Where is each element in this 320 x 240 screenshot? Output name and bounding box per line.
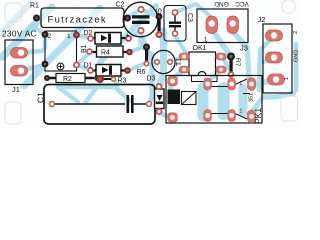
pad R7 bottom (228, 71, 235, 78)
svg-text:230V AC: 230V AC (2, 29, 37, 39)
pad OK1 bottom-left (179, 66, 190, 73)
wire J1 pad1 to B1 (19, 36, 45, 53)
pad R7 top (227, 53, 235, 61)
pad B1 top-left (42, 31, 49, 38)
pad C3 top (172, 9, 179, 16)
pad R5 bottom (155, 31, 162, 38)
pad C1 right (146, 101, 152, 107)
capacitor C2 electrolytic (123, 2, 158, 39)
via near R1 (29, 23, 38, 32)
svg-text:+: + (126, 33, 130, 40)
svg-text:GND: GND (294, 50, 300, 62)
relay PK1 lever top (211, 79, 247, 87)
wire bottom right to relay (252, 93, 294, 112)
wire B1 to R4 (77, 52, 90, 65)
pad R4 left (86, 48, 93, 55)
svg-text:C1: C1 (36, 92, 46, 103)
relay PK1 coil black box (168, 90, 181, 105)
wire J3 pad1 to R7 top (213, 31, 230, 55)
wire OK1 left-bottom to relay coil (170, 70, 184, 92)
transistor T1 (152, 50, 175, 73)
pad OK1 bottom-right (216, 66, 227, 73)
wire relay right interior vertical (239, 88, 248, 113)
pad B1 bottom-left (42, 61, 49, 68)
pad C2 top (137, 6, 144, 13)
svg-text:1: 1 (284, 77, 290, 80)
resistor R7 vertical (230, 58, 233, 72)
connector J1 outline (5, 40, 33, 85)
wire C1 interior diagonal 2 (85, 87, 97, 103)
pad J3 1 (206, 16, 218, 34)
pad J2 2 middle (266, 52, 283, 63)
pad C1 left (49, 101, 55, 107)
pad R4 right (126, 49, 133, 56)
diode D3 vertical (155, 89, 165, 109)
mounting hole bottom-left (5, 102, 21, 124)
pad PK1 right-bottom (248, 110, 256, 123)
connector J1 pad 1 (11, 48, 28, 59)
svg-text:GND: GND (214, 0, 229, 7)
wire top-left faint upper band (0, 4, 30, 34)
wire J2 pad2 stub (263, 58, 274, 62)
wire B1 to D1 (77, 65, 91, 71)
svg-text:OK1: OK1 (193, 45, 207, 52)
pad D1 right (124, 67, 131, 74)
relay PK1 mark line right (243, 93, 250, 95)
wire R5 bottom to vertical band (159, 35, 164, 41)
wire relay interior vertical (198, 88, 209, 116)
pad PK1 mid-top-1 (204, 78, 212, 90)
wire R3 stub (114, 79, 117, 86)
svg-text:C2: C2 (116, 2, 125, 9)
svg-text:Futrzaczek: Futrzaczek (48, 14, 107, 25)
pad D3 bottom (156, 108, 163, 115)
pad OK1 top-left (179, 53, 190, 60)
svg-text:1: 1 (240, 109, 243, 115)
svg-text:1: 1 (67, 33, 71, 40)
pad R6 top (143, 44, 150, 51)
wire right edge vertical (294, 44, 299, 90)
svg-text:R2: R2 (63, 76, 72, 83)
mounting hole top-right (282, 0, 296, 13)
wire C2 top to R5 top (142, 10, 158, 17)
resistor R3 (96, 78, 114, 80)
svg-text:R1: R1 (30, 3, 39, 10)
wire C1 interior diagonal 3 (115, 87, 130, 101)
connector J1 pad 2 (11, 66, 28, 77)
svg-text:R7: R7 (234, 58, 241, 67)
svg-text:R6: R6 (137, 69, 146, 76)
capacitor C1 outline (44, 85, 155, 125)
pad PK1 right-top (248, 78, 256, 91)
bridge rectifier B1 outline (45, 31, 77, 71)
wire OK1 right-bottom to relay pad (207, 70, 222, 82)
resistor R2 (47, 74, 96, 84)
connector J2 outline (263, 24, 292, 93)
wire R4 to R6 (129, 46, 146, 52)
pad J3 2 (227, 16, 239, 34)
resistor R1 outline with value Futrzaczek (41, 8, 124, 28)
wire via to B1 pad (34, 27, 44, 34)
pad C2 bottom (137, 27, 144, 34)
svg-text:R3: R3 (118, 78, 127, 85)
connector J3 outline (197, 9, 248, 44)
wire diagonal through C2 (100, 6, 156, 62)
resistor R6 vertical (145, 48, 148, 62)
pad T1 left (154, 59, 160, 65)
pad T1 right (167, 59, 173, 65)
pad R5 top (156, 13, 163, 20)
diode D2 (90, 33, 128, 45)
svg-text:VCC: VCC (235, 0, 249, 7)
pad R1 right (124, 15, 131, 22)
pad D2 left (87, 35, 94, 42)
resistor R5 vertical (158, 18, 161, 33)
mounting hole bottom-right (281, 96, 298, 121)
pad R1 left (33, 15, 40, 22)
pad B1 top-right (73, 32, 80, 39)
pad D2 right (125, 35, 132, 42)
svg-text:J2: J2 (258, 15, 266, 24)
pad PK1 mid-top-2 (228, 78, 236, 90)
svg-text:J1: J1 (12, 85, 20, 94)
pad PK1 left-top (168, 76, 178, 86)
resistor R4 (90, 46, 129, 57)
pad D1 left (87, 67, 94, 74)
wire J3 pad2 to relay right-top pad (233, 32, 249, 78)
svg-text:1: 1 (240, 81, 243, 87)
relay PK1 lever bottom (211, 113, 247, 119)
wire B1 to D2 (77, 35, 91, 39)
relay PK1 outline (166, 76, 262, 124)
wire OK1 right-top to R7 bottom (222, 57, 230, 70)
pad B1 bottom-right (73, 62, 80, 69)
wire C3 top to J3 pad1 (176, 4, 211, 22)
capacitor C3 outline (164, 6, 186, 42)
optocoupler OK1 outline (189, 52, 216, 76)
pad PK1 mid-bottom-2 (228, 110, 236, 122)
pad R3 body end (96, 75, 104, 83)
wire D1 to R6 (128, 63, 146, 71)
wire C2 bottom to R6 top (141, 33, 146, 44)
pad OK1 top-right (216, 53, 227, 60)
wire D2 to C2 (129, 31, 140, 39)
wire J2 pad1 down left side (259, 38, 272, 90)
wire relay interior diagonal (218, 88, 230, 114)
board background (0, 0, 300, 128)
wire C1 interior diagonal 1 (58, 87, 78, 102)
pad C3 bottom (172, 30, 179, 37)
pad D3 top (156, 83, 163, 90)
wire C2 bottom to C1 right pad (141, 32, 152, 104)
wire J1 pad2 to B1 (19, 65, 45, 71)
svg-text:J3: J3 (240, 44, 248, 53)
wire J2 pad3 to relay right-top pad (254, 81, 271, 84)
diode D1 (90, 65, 127, 77)
pad J2 3 bottom (268, 74, 285, 85)
pad R3 right (111, 76, 117, 82)
wire top-left diagonal bus A (2, 7, 52, 57)
wire C3 bottom to OK1 (175, 36, 185, 57)
pad R2 left (44, 75, 50, 81)
relay PK1 coil outline box (182, 92, 197, 105)
pad R6 bottom (144, 61, 150, 67)
svg-text:2: 2 (293, 31, 299, 34)
svg-text:PK1: PK1 (253, 108, 263, 124)
mounting hole top-left (5, 3, 22, 22)
svg-text:R4: R4 (101, 50, 110, 57)
pad R2 right (94, 75, 100, 81)
wire top-left diagonal bus B (24, 8, 100, 86)
wire D3 bottom to relay pad (159, 113, 171, 118)
pad PK1 left-bottom (168, 113, 178, 123)
svg-text:D3: D3 (147, 76, 156, 83)
wire R1 right to C2 top (128, 11, 139, 17)
wire T1 right to OK1 (170, 57, 184, 61)
svg-text:C3: C3 (186, 13, 193, 22)
wire C1 interior horizontal (58, 85, 115, 90)
pad PK1 mid-bottom-1 (204, 110, 212, 122)
wire vertical band through T1 to D3 (160, 31, 164, 86)
pad J2 1 top (266, 30, 283, 41)
svg-text:351: 351 (249, 93, 255, 102)
